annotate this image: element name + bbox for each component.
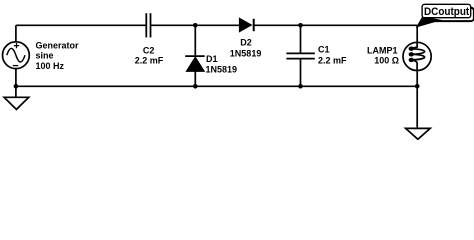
diode D1 xyxy=(185,56,205,71)
diode D2 labels xyxy=(230,38,262,59)
wire top segment 1 xyxy=(16,24,146,26)
wire D1 branch upper xyxy=(194,25,196,55)
svg-text:C2: C2 xyxy=(143,45,155,55)
flag DCoutput tail xyxy=(416,16,442,27)
wire D1 branch lower xyxy=(194,71,196,86)
wire lamp bottom xyxy=(416,71,418,129)
svg-text:C1: C1 xyxy=(318,44,330,54)
capacitor C2 xyxy=(146,13,150,37)
node junction top C1 xyxy=(298,23,303,28)
wire C1 branch upper xyxy=(300,25,302,53)
node junction bottom left xyxy=(14,84,19,89)
capacitor C1 xyxy=(286,53,314,58)
svg-text:2.2 mF: 2.2 mF xyxy=(135,56,164,66)
svg-text:D1: D1 xyxy=(206,54,218,64)
lamp LAMP1 xyxy=(403,42,431,70)
svg-text:LAMP1: LAMP1 xyxy=(367,45,398,55)
svg-text:D2: D2 xyxy=(240,38,252,48)
ground left xyxy=(4,97,29,109)
svg-text:100 Ω: 100 Ω xyxy=(374,56,399,66)
node junction bottom C1 xyxy=(298,84,303,89)
capacitor C1 labels xyxy=(318,44,347,65)
wire bottom rail xyxy=(16,85,417,87)
wire lamp top xyxy=(416,25,418,42)
svg-text:2.2 mF: 2.2 mF xyxy=(318,55,347,65)
node junction bottom right xyxy=(415,84,420,89)
svg-text:1N5819: 1N5819 xyxy=(206,64,238,74)
wire top segment 3 xyxy=(254,24,418,26)
node junction bottom D1 xyxy=(193,84,198,89)
lamp LAMP1 labels xyxy=(367,45,399,65)
wire C1 branch lower xyxy=(300,59,302,87)
svg-text:1N5819: 1N5819 xyxy=(230,48,262,58)
wire source bottom xyxy=(15,68,17,97)
node junction top D1 xyxy=(193,23,198,28)
svg-text:100 Hz: 100 Hz xyxy=(36,61,65,71)
ground right xyxy=(406,128,431,139)
generator V1 AC source xyxy=(3,42,30,69)
wire top segment 2 xyxy=(151,24,240,26)
generator labels xyxy=(36,41,80,71)
flag DCoutput shadow xyxy=(425,8,474,21)
svg-text:Generator: Generator xyxy=(36,41,80,51)
diode D2 xyxy=(239,18,253,32)
wire source top xyxy=(15,25,17,42)
flag DCoutput box xyxy=(422,4,471,17)
svg-text:DCoutput: DCoutput xyxy=(424,6,470,18)
capacitor C2 labels xyxy=(135,45,164,65)
svg-text:sine: sine xyxy=(36,51,54,61)
diode D1 labels xyxy=(206,54,238,75)
